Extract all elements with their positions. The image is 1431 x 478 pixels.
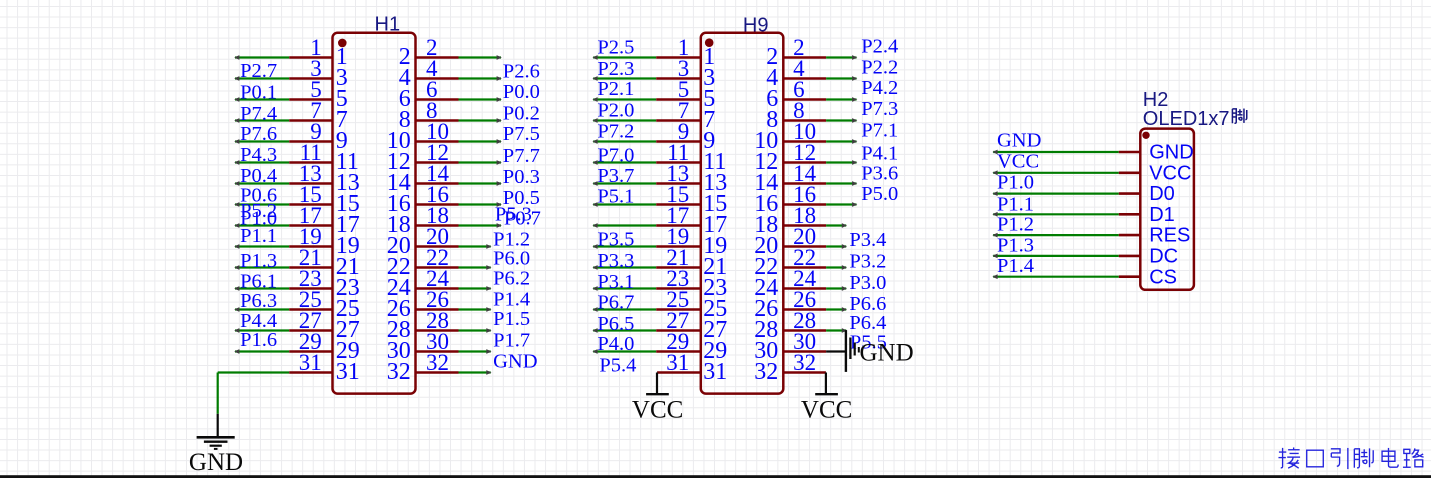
svg-text:P3.7: P3.7	[597, 165, 634, 187]
svg-text:GND: GND	[1149, 142, 1193, 164]
svg-text:P7.0: P7.0	[597, 144, 634, 166]
svg-text:P1.3: P1.3	[997, 234, 1034, 256]
svg-text:P3.4: P3.4	[849, 229, 886, 251]
svg-text:CS: CS	[1149, 266, 1177, 288]
svg-text:P3.3: P3.3	[597, 250, 634, 272]
svg-text:P3.1: P3.1	[597, 271, 634, 293]
svg-text:P1.6: P1.6	[240, 329, 277, 351]
svg-text:DC: DC	[1149, 246, 1178, 268]
svg-text:P4.1: P4.1	[861, 143, 898, 165]
svg-text:P2.4: P2.4	[861, 36, 898, 58]
svg-text:P2.0: P2.0	[597, 99, 634, 121]
svg-text:OLED1x7: OLED1x7	[1143, 108, 1230, 130]
svg-text:P2.3: P2.3	[597, 58, 634, 80]
svg-text:VCC: VCC	[801, 396, 852, 423]
svg-text:P1.7: P1.7	[493, 329, 530, 351]
svg-text:P6.5: P6.5	[597, 313, 634, 335]
svg-text:31: 31	[703, 359, 727, 385]
svg-text:32: 32	[426, 350, 449, 375]
svg-text:D1: D1	[1149, 204, 1175, 226]
svg-text:P2.2: P2.2	[861, 57, 898, 79]
svg-text:D0: D0	[1149, 183, 1175, 205]
svg-text:P0.1: P0.1	[240, 82, 277, 104]
svg-text:VCC: VCC	[1149, 162, 1191, 184]
svg-text:H1: H1	[375, 14, 401, 36]
svg-text:GND: GND	[493, 350, 537, 372]
svg-text:P5.1: P5.1	[597, 185, 634, 207]
svg-text:RES: RES	[1149, 225, 1190, 247]
svg-text:P7.7: P7.7	[503, 145, 540, 167]
svg-text:P0.0: P0.0	[503, 81, 540, 103]
svg-text:H9: H9	[743, 15, 769, 37]
svg-text:P4.2: P4.2	[861, 77, 898, 99]
svg-text:31: 31	[299, 350, 322, 375]
svg-text:P7.5: P7.5	[503, 123, 540, 145]
svg-text:P4.0: P4.0	[597, 333, 634, 355]
svg-text:GND: GND	[997, 130, 1041, 152]
svg-text:P6.3: P6.3	[240, 290, 277, 312]
svg-text:P2.5: P2.5	[597, 36, 634, 58]
svg-text:P1.1: P1.1	[997, 194, 1034, 216]
svg-text:GND: GND	[189, 449, 243, 476]
svg-text:P7.6: P7.6	[240, 123, 277, 145]
svg-text:P4.3: P4.3	[240, 144, 277, 166]
svg-text:P7.2: P7.2	[597, 121, 634, 143]
svg-text:31: 31	[336, 359, 360, 385]
svg-text:P5.0: P5.0	[861, 183, 898, 205]
svg-text:P3.6: P3.6	[861, 163, 898, 185]
svg-text:P1.1: P1.1	[240, 225, 277, 247]
svg-text:P6.7: P6.7	[597, 292, 634, 314]
svg-text:P6.0: P6.0	[493, 248, 530, 270]
svg-text:P1.4: P1.4	[997, 255, 1034, 277]
svg-text:P3.0: P3.0	[849, 272, 886, 294]
svg-text:P3.2: P3.2	[849, 251, 886, 273]
svg-text:P7.3: P7.3	[861, 98, 898, 120]
svg-text:P3.5: P3.5	[597, 228, 634, 250]
svg-text:VCC: VCC	[632, 396, 683, 423]
svg-text:P1.4: P1.4	[493, 288, 530, 310]
svg-text:P5.4: P5.4	[599, 354, 636, 376]
svg-text:VCC: VCC	[997, 150, 1039, 172]
svg-text:P6.2: P6.2	[493, 267, 530, 289]
svg-text:P2.1: P2.1	[597, 78, 634, 100]
svg-text:32: 32	[754, 359, 778, 385]
svg-text:P7.1: P7.1	[861, 120, 898, 142]
svg-text:P2.7: P2.7	[240, 60, 277, 82]
svg-text:P0.7: P0.7	[504, 208, 541, 230]
svg-text:P0.3: P0.3	[503, 166, 540, 188]
svg-text:P1.2: P1.2	[997, 214, 1034, 236]
svg-text:32: 32	[387, 359, 411, 385]
svg-text:P7.4: P7.4	[240, 103, 277, 125]
svg-text:GND: GND	[860, 339, 914, 366]
svg-text:P2.6: P2.6	[503, 61, 540, 83]
svg-text:P1.3: P1.3	[240, 250, 277, 272]
svg-text:P1.0: P1.0	[997, 172, 1034, 194]
svg-text:P1.5: P1.5	[493, 308, 530, 330]
svg-text:31: 31	[666, 350, 689, 375]
svg-text:32: 32	[793, 350, 816, 375]
svg-text:P0.2: P0.2	[503, 102, 540, 124]
